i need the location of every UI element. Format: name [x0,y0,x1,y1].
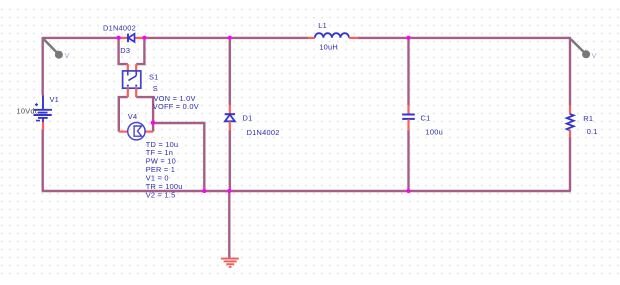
label L1 value 10uH [319,42,338,51]
label D1 reference designator [243,114,253,123]
label D3 reference designator [120,46,130,55]
diode D1 (D1N4002 freewheeling, cathode up) [225,105,235,131]
svg-text:L1: L1 [318,21,327,30]
junction node: top rail / D3 anode / S1 left [117,36,121,40]
wire: top rail right segment (L1 right pin to top-right corner) [358,37,571,39]
label V4 parameter TR [146,182,183,191]
svg-text:10uH: 10uH [319,42,338,51]
label S1 reference designator [149,72,159,81]
junction node: top rail / D3 cathode / S1 right [142,36,146,40]
svg-text:R1: R1 [583,114,593,123]
svg-text:V1: V1 [50,95,60,104]
junction node: bottom rail / D1 / ground stem [227,189,231,193]
label V4 parameter PER [146,165,175,174]
junction node: top rail / C1 branch [406,36,410,40]
svg-text:V4: V4 [128,112,138,121]
svg-text:S: S [153,84,158,93]
svg-text:D1N4002: D1N4002 [103,24,136,33]
svg-text:TR = 100u: TR = 100u [146,182,183,191]
voltage probe marker at V1 top node [44,39,70,60]
wire: V4 right node to bottom rail [153,123,204,191]
wire: bottom ground rail [42,190,571,192]
switch S1 (voltage-controlled switch box) [123,64,141,97]
junction node: top rail / D1 branch [228,36,232,40]
capacitor C1 [402,105,415,130]
svg-text:VOFF = 0.0V: VOFF = 0.0V [153,102,199,111]
wire: S1 branch right drop from top rail [136,38,144,64]
voltage source V1 (10Vdc battery) [34,95,53,130]
pulse source V4 (circle symbol) [119,123,153,140]
label S1 parameter VON [154,94,196,103]
wire: D1 branch upper (top rail node to D1 cathode pin) [229,38,231,105]
label V4 parameter V2 [146,191,176,200]
wire: V1 - terminal down to bottom rail [42,130,44,192]
label S1 model S [153,84,158,93]
wire: S1 branch left drop from top rail [119,38,128,64]
label V1 reference designator [50,95,60,104]
label V4 parameter V1 [146,174,169,183]
svg-text:S1: S1 [149,72,159,81]
diode D3 (D1N4002, on top rail, cathode left) [119,34,145,43]
svg-text:V: V [65,51,70,60]
label V4 parameter TF [146,148,173,157]
svg-text:D3: D3 [120,46,130,55]
junction node: bottom rail / C1 branch [406,189,410,193]
inductor L1 [308,33,358,38]
svg-text:V: V [592,51,597,60]
svg-text:0.1: 0.1 [587,127,598,136]
junction node: V4 right terminal / ground return [151,121,155,125]
label L1 reference designator [318,21,327,30]
wire: S1 bottom-left control to V4 left terminal [119,97,128,132]
svg-text:D1: D1 [243,114,253,123]
label C1 reference designator [421,113,431,122]
junction node: bottom rail / V4 return [202,189,206,193]
wire: ground stem below bottom rail [228,191,230,258]
label C1 value 100u [426,127,443,136]
wire: C1 branch upper (top rail node to C1 top pin) [407,38,409,105]
svg-text:V2 = 1.5: V2 = 1.5 [146,191,176,200]
ground symbol (0/analog ground) [221,259,239,267]
wire: right vertical lower (R1 bottom pin to bottom rail) [569,137,571,191]
label V4 parameter PW [146,157,176,166]
label R1 reference designator [583,114,593,123]
label V4 reference designator [128,112,138,121]
wire: D1 branch lower (D1 anode pin to bottom rail) [229,131,231,192]
wire: S1 bottom-right control down to V4 right terminal [136,97,153,132]
label V4 parameter TD [146,140,179,149]
wire: left vertical (top rail to V1 + terminal) [42,37,44,95]
svg-text:C1: C1 [421,113,431,122]
voltage probe marker at output node [571,39,597,60]
wire: top rail middle segment (D3 cathode node to L1 left pin) [144,37,308,39]
svg-text:D1N4002: D1N4002 [247,128,280,137]
svg-text:100u: 100u [426,127,443,136]
label V1 value 10Vdc [17,107,39,116]
label S1 parameter VOFF [153,102,199,111]
wire: right vertical upper (corner to R1 top pin) [569,37,571,106]
svg-text:10Vdc: 10Vdc [17,107,39,116]
wire: top rail left segment (V1 top to D3 anode node) [43,37,119,39]
label D3 model D1N4002 [103,24,136,33]
label R1 value 0.1 [587,127,598,136]
label D1 model D1N4002 [247,128,280,137]
wire: C1 branch lower (C1 bottom pin to bottom rail) [407,130,409,191]
resistor R1 [567,106,574,138]
